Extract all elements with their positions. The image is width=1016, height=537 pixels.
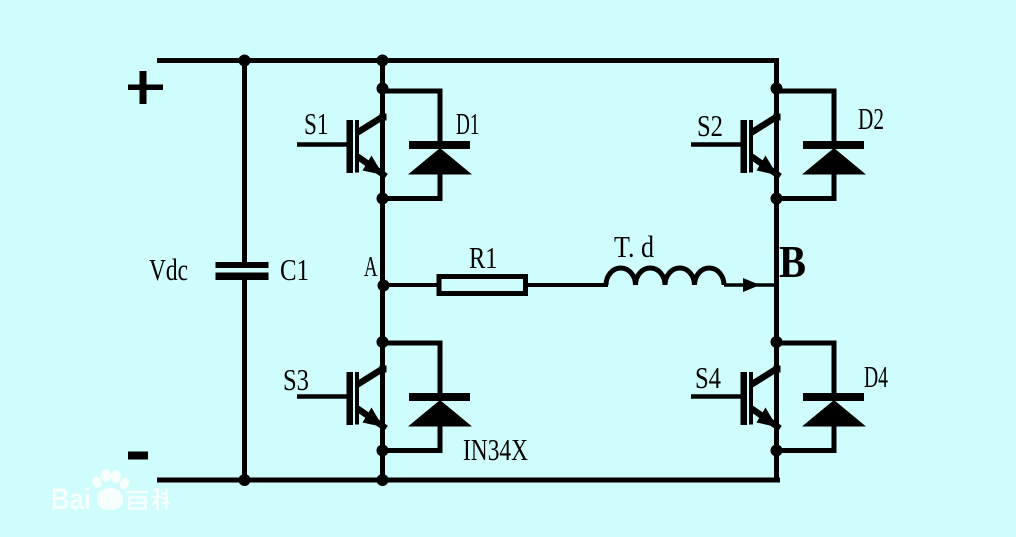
wire C1 lower branch <box>242 280 247 482</box>
minus terminal <box>128 452 148 460</box>
svg-text:D2: D2 <box>858 101 884 136</box>
diode D1 <box>383 91 472 199</box>
junction dot top rail / left leg <box>377 55 389 67</box>
junction dot S1 emitter loop <box>377 193 389 205</box>
svg-text:C1: C1 <box>280 252 309 287</box>
diode D2 <box>777 91 866 199</box>
junction dot bottom rail / C1 <box>239 474 251 486</box>
junction dot S1 collector loop <box>377 83 389 95</box>
transistor S4 <box>691 366 781 429</box>
wire R1 to T.d <box>528 283 608 287</box>
junction dot top rail / C1 <box>239 55 251 67</box>
inductor T.d <box>606 268 724 285</box>
wire node A to R1 <box>386 283 438 287</box>
transistor S1 <box>297 114 387 177</box>
svg-text:A: A <box>364 251 378 283</box>
svg-text:Vdc: Vdc <box>149 252 188 287</box>
junction dot S2 emitter loop <box>771 193 783 205</box>
svg-text:R1: R1 <box>469 240 498 275</box>
svg-text:D1: D1 <box>456 106 480 141</box>
capacitor C1 <box>216 262 269 280</box>
node A junction dot <box>378 280 390 292</box>
junction dot S2 collector loop <box>771 83 783 95</box>
diode D3 <box>383 343 472 451</box>
transistor S2 <box>691 114 781 177</box>
svg-text:IN34X: IN34X <box>463 432 528 467</box>
plus terminal <box>128 71 163 104</box>
junction dot S4 emitter loop <box>771 445 783 457</box>
svg-text:D4: D4 <box>864 359 888 394</box>
wire top rail <box>157 58 779 63</box>
wire bottom rail <box>157 478 780 483</box>
diode D4 <box>777 343 866 451</box>
svg-text:B: B <box>779 237 806 287</box>
watermark Baidu Baike <box>51 469 170 516</box>
resistor R1 <box>439 277 526 294</box>
wire T.d to node B <box>724 283 775 287</box>
svg-text:S3: S3 <box>283 362 309 397</box>
junction dot S3 emitter loop <box>377 445 389 457</box>
junction dot S3 collector loop <box>377 336 389 348</box>
wire left bridge leg <box>380 58 385 483</box>
arrowhead toward node B <box>743 278 760 292</box>
junction dot S4 collector loop <box>771 336 783 348</box>
svg-text:T. d: T. d <box>614 229 654 264</box>
svg-text:S2: S2 <box>697 108 723 143</box>
svg-text:Bai: Bai <box>51 483 91 516</box>
wire C1 upper branch <box>242 58 247 263</box>
svg-text:S4: S4 <box>695 360 721 395</box>
wire right bridge leg <box>774 58 779 483</box>
junction dot bottom rail / left leg <box>377 474 389 486</box>
svg-text:S1: S1 <box>304 106 329 141</box>
transistor S3 <box>297 366 387 429</box>
